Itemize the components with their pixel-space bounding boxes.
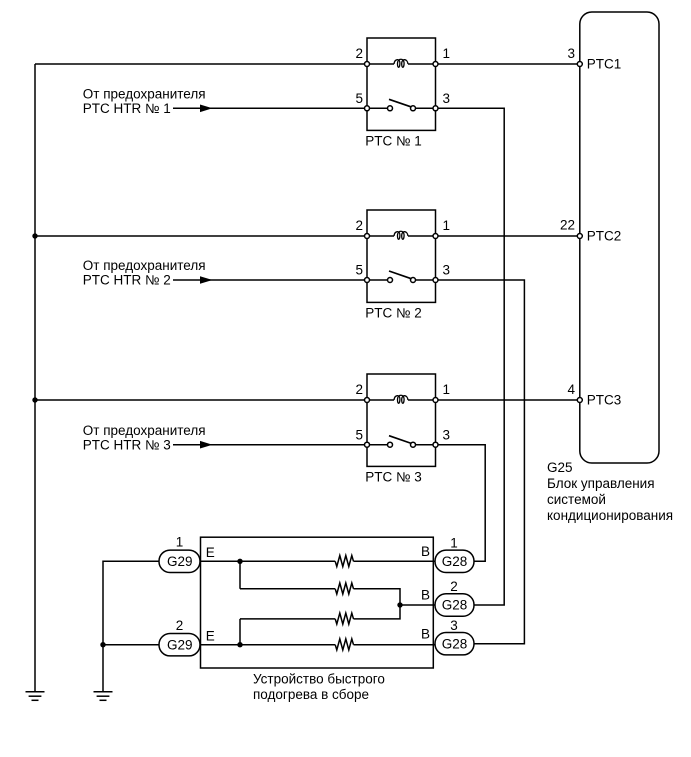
relay3 coil wire segments	[367, 399, 394, 401]
svg-text:PTC2: PTC2	[587, 228, 622, 243]
wire: G29 pin2 to ground junction	[103, 644, 159, 646]
svg-text:1: 1	[176, 535, 184, 550]
wire: heater row 3 left segment	[240, 618, 335, 620]
relay2 coil wire segments	[367, 235, 394, 237]
svg-text:B: B	[421, 588, 430, 603]
svg-text:кондиционирования: кондиционирования	[547, 508, 673, 523]
wire: heater row 1 left segment	[201, 560, 336, 562]
svg-text:3: 3	[443, 263, 451, 278]
relay1 pin 1	[433, 62, 438, 67]
svg-text:B: B	[421, 626, 430, 641]
svg-text:22: 22	[560, 218, 575, 233]
svg-text:5: 5	[355, 91, 363, 106]
svg-text:1: 1	[450, 535, 458, 550]
relay2 pin 1	[433, 234, 438, 239]
svg-text:3: 3	[443, 91, 451, 106]
node: bus junction at relay3 branch	[32, 397, 37, 402]
svg-text:G28: G28	[442, 636, 468, 651]
relay2 pin 3	[433, 278, 438, 283]
svg-text:PTC № 1: PTC № 1	[365, 133, 422, 148]
relay3 switch contact circles	[388, 442, 393, 447]
svg-text:2: 2	[355, 382, 363, 397]
wire: heater row 1 right segment	[354, 560, 436, 562]
relay1 switch contact circles	[388, 106, 393, 111]
svg-text:1: 1	[443, 218, 451, 233]
svg-text:5: 5	[355, 427, 363, 442]
svg-text:PTC3: PTC3	[587, 392, 622, 407]
wire: relay2 pin3 down to connector G28 pin 3	[436, 280, 525, 644]
wire: relay2 pin1 to G25 pin 22 (PTC2)	[436, 235, 580, 237]
relay1 pin 3	[433, 106, 438, 111]
wire: G29 pin1 to ground vertical	[103, 561, 159, 691]
svg-text:системой: системой	[547, 492, 606, 507]
A/C control unit G25 block	[580, 12, 659, 463]
relay3 pin 5	[365, 442, 370, 447]
G25 pin 3 PTC1	[577, 62, 582, 67]
arrowhead on fuse feed 2	[200, 276, 213, 284]
relay1 coil wire segments	[367, 63, 394, 65]
relay PTC No.2 box	[367, 210, 436, 302]
resistor row 3	[335, 613, 353, 624]
arrowhead on fuse feed 1	[200, 105, 213, 113]
relay2 pin 2	[365, 234, 370, 239]
connector G29 pin1 oval	[159, 550, 200, 572]
svg-text:G28: G28	[442, 554, 468, 569]
relay2 pin 5	[365, 278, 370, 283]
wire: heater row 4 left segment	[201, 644, 336, 646]
connector G28 pin2 oval	[435, 594, 474, 616]
svg-text:От предохранителя: От предохранителя	[83, 258, 206, 273]
relay3 switch wire segments	[367, 444, 388, 446]
ground symbol left	[26, 692, 45, 701]
wire: row1 to row2 vertical	[239, 561, 241, 589]
relay3 coil	[394, 395, 408, 403]
relay2 switch wire segments	[367, 279, 388, 281]
svg-text:G29: G29	[167, 637, 193, 652]
relay3 pin 2	[365, 398, 370, 403]
relay1 pin 5	[365, 106, 370, 111]
relay3 pin 1	[433, 398, 438, 403]
svg-text:1: 1	[443, 382, 451, 397]
wire: fuse feed to relay3 pin 5	[173, 444, 367, 446]
svg-text:PTC HTR № 2: PTC HTR № 2	[83, 273, 171, 288]
svg-text:G28: G28	[442, 598, 468, 613]
svg-text:3: 3	[567, 46, 575, 61]
wire: bus branch to relay PTC3 pin 2	[35, 399, 367, 401]
node: B2 junction	[397, 602, 402, 607]
resistor row 1	[335, 556, 353, 567]
wire: heater row 2 left segment	[240, 588, 335, 590]
wire: relay3 pin1 to G25 pin 4 (PTC3)	[436, 399, 580, 401]
svg-text:G29: G29	[167, 554, 193, 569]
svg-text:PTC № 3: PTC № 3	[365, 469, 422, 484]
arrowhead on fuse feed 3	[200, 441, 213, 449]
svg-text:E: E	[206, 628, 215, 643]
heater assembly box	[201, 537, 434, 668]
wire: row4 to row3 vertical	[239, 619, 241, 645]
G25 pin 22 PTC2	[577, 234, 582, 239]
svg-text:подогрева в сборе: подогрева в сборе	[253, 687, 369, 702]
connector G29 pin2 oval	[159, 634, 200, 656]
wire: relay3 pin3 down to connector G28 pin 1	[436, 445, 486, 562]
svg-text:B: B	[421, 544, 430, 559]
wire: heater row 4 right segment	[354, 644, 436, 646]
svg-text:3: 3	[450, 618, 458, 633]
wire: relay1 pin1 to G25 pin 3 (PTC1)	[436, 63, 580, 65]
svg-text:PTC № 2: PTC № 2	[365, 305, 422, 320]
wire: row 2 right segment to B2 node	[354, 589, 401, 605]
connector G28 pin1 oval	[435, 550, 474, 572]
relay2 switch blade	[389, 271, 412, 279]
relay1 switch wire segments	[367, 107, 388, 109]
svg-text:PTC HTR № 1: PTC HTR № 1	[83, 101, 171, 116]
G25 pin 4 PTC3	[577, 398, 582, 403]
svg-text:G25: G25	[547, 460, 573, 475]
wire: B2 node to connector G28 pin2	[400, 604, 435, 606]
svg-text:2: 2	[450, 579, 458, 594]
wire: row 3 right segment to B2 node	[354, 605, 401, 619]
relay1 coil	[394, 59, 408, 67]
svg-text:4: 4	[567, 382, 575, 397]
svg-text:PTC HTR № 3: PTC HTR № 3	[83, 437, 171, 452]
node: ground branch junction	[100, 642, 105, 647]
relay3 pin 3	[433, 442, 438, 447]
svg-text:E: E	[206, 545, 215, 560]
svg-text:Блок управления: Блок управления	[547, 476, 655, 491]
relay2 coil	[394, 231, 408, 239]
resistor row 2	[335, 583, 353, 594]
svg-text:2: 2	[355, 46, 363, 61]
wire: top bus horizontal to relay PTC1 pin 2	[35, 63, 367, 65]
relay PTC No.1 box	[367, 38, 436, 130]
node: row4 junction	[237, 642, 242, 647]
wire: bus branch to relay PTC2 pin 2	[35, 235, 367, 237]
svg-text:1: 1	[443, 46, 451, 61]
svg-text:Устройство быстрого: Устройство быстрого	[253, 671, 385, 686]
relay2 switch contact circles	[388, 278, 393, 283]
node: row1 junction	[237, 559, 242, 564]
relay3 switch blade	[389, 436, 412, 444]
wire: fuse feed to relay2 pin 5	[173, 279, 367, 281]
connector G28 pin3 oval	[435, 633, 474, 655]
svg-text:2: 2	[355, 218, 363, 233]
node: bus junction at relay2 branch	[32, 233, 37, 238]
svg-text:PTC1: PTC1	[587, 56, 622, 71]
svg-text:5: 5	[355, 263, 363, 278]
relay PTC No.3 box	[367, 374, 436, 466]
wire: fuse feed to relay1 pin 5	[173, 107, 367, 109]
relay1 pin 2	[365, 62, 370, 67]
svg-text:3: 3	[443, 427, 451, 442]
svg-text:2: 2	[176, 618, 184, 633]
resistor row 4	[335, 639, 353, 650]
svg-text:От предохранителя: От предохранителя	[83, 423, 206, 438]
relay1 switch blade	[389, 99, 412, 107]
ground symbol right	[94, 692, 113, 701]
svg-text:От предохранителя: От предохранителя	[83, 87, 206, 102]
wire: left bus vertical	[34, 64, 36, 691]
wire: relay1 pin3 down to connector G28 pin 2	[436, 108, 505, 605]
